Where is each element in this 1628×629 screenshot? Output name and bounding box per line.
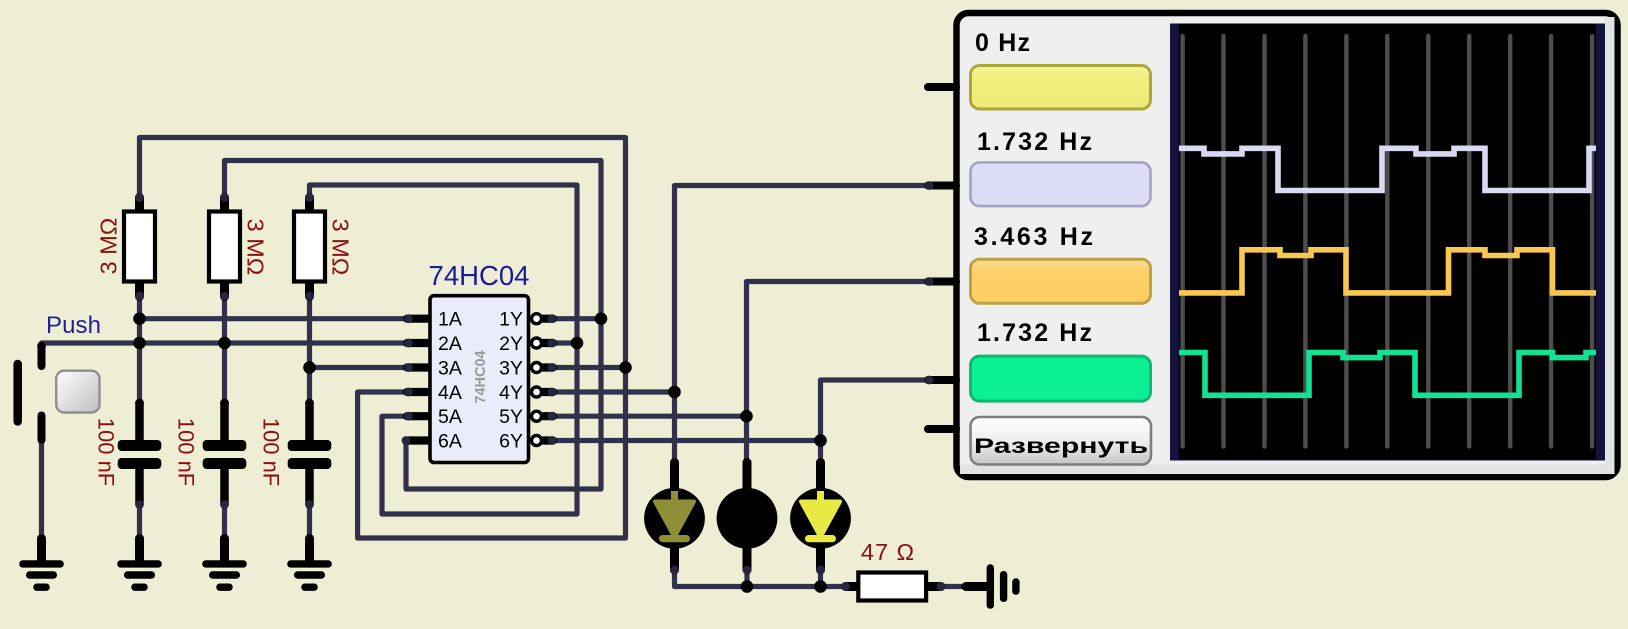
LED D2 — [717, 458, 778, 574]
wire C2 to ground — [222, 504, 227, 539]
svg-text:4A: 4A — [438, 382, 462, 404]
svg-text:0 Hz: 0 Hz — [975, 29, 1030, 57]
svg-text:1Y: 1Y — [499, 309, 523, 331]
junction R1/2A — [133, 337, 146, 350]
wire row 2Y — [551, 340, 577, 345]
oscilloscope panel — [957, 13, 1618, 477]
wire column R3-C3 — [307, 296, 312, 403]
wire column R1-C1 — [137, 296, 142, 403]
svg-text:6Y: 6Y — [499, 431, 523, 453]
svg-text:3.463 Hz: 3.463 Hz — [974, 223, 1093, 251]
junction 6Y — [814, 434, 827, 447]
wire row 3A — [310, 365, 411, 370]
wire row 4Y — [551, 389, 675, 394]
wire C1 to ground — [137, 504, 142, 539]
waveform channel 3 orange 3.463 Hz — [1179, 250, 1596, 293]
junction bus D2 — [741, 580, 754, 593]
display gridlines — [1183, 36, 1593, 447]
svg-text:3 MΩ: 3 MΩ — [243, 219, 269, 276]
svg-text:3 MΩ: 3 MΩ — [328, 219, 354, 276]
junction 1Y — [595, 312, 608, 325]
scope input stub 1 — [928, 83, 956, 91]
svg-text:3 MΩ: 3 MΩ — [96, 218, 122, 275]
svg-text:5Y: 5Y — [499, 406, 523, 428]
svg-text:Развернуть: Развернуть — [974, 435, 1148, 458]
button Razvernut — [971, 417, 1152, 465]
wire row 1A — [140, 316, 411, 321]
C3 ground — [287, 534, 332, 591]
wire 47ohm to ground — [941, 584, 966, 589]
resistor R2 3 Mohm — [209, 193, 269, 300]
svg-text:47 Ω: 47 Ω — [861, 539, 915, 565]
wire net 2Y feedback loop (R3 top, V3, 5A loop) — [310, 185, 578, 514]
wire row 6Y — [551, 438, 821, 443]
wire row 3Y — [551, 365, 626, 370]
junction bus D3 — [814, 580, 827, 593]
channel 3 color box orange — [971, 259, 1151, 303]
junction 2Y — [571, 337, 584, 350]
svg-text:3Y: 3Y — [499, 358, 523, 380]
wire C3 to ground — [307, 504, 312, 539]
svg-text:1A: 1A — [438, 309, 462, 331]
wire row 5Y — [551, 414, 747, 419]
scope input stub 5 — [928, 425, 956, 433]
wire row 2A from push button — [42, 343, 411, 348]
capacitor C1 100 nF — [94, 399, 162, 509]
wire 5Y to scope channel 3 — [747, 282, 930, 463]
LED D1 — [644, 458, 705, 574]
svg-text:6A: 6A — [438, 431, 462, 453]
scope display — [1170, 24, 1605, 461]
op-amp U1 74HC04 inverter chip — [402, 296, 557, 463]
push button ground — [19, 534, 64, 591]
wire row 1Y — [551, 316, 601, 321]
wire column R2-C2 — [222, 296, 227, 403]
wire 6Y to scope channel 4 — [821, 380, 930, 463]
junction 3Y — [619, 361, 632, 374]
channel 4 color box green — [971, 356, 1151, 401]
resistor R3 3 Mohm — [294, 193, 354, 300]
channel 2 color box lavender — [971, 162, 1151, 206]
svg-text:1.732 Hz: 1.732 Hz — [977, 319, 1092, 347]
svg-text:4Y: 4Y — [499, 382, 523, 404]
svg-text:1.732 Hz: 1.732 Hz — [977, 128, 1092, 156]
svg-text:100 nF: 100 nF — [94, 418, 119, 487]
ground right of R4 — [962, 564, 1020, 609]
capacitor C3 100 nF — [259, 399, 332, 509]
svg-text:2Y: 2Y — [499, 333, 523, 355]
wire LED cathode bus — [675, 570, 847, 587]
svg-text:Push: Push — [46, 312, 101, 339]
wire push button to ground — [39, 440, 44, 539]
junction R1/1A — [133, 312, 146, 325]
scope input stub 4 — [925, 376, 956, 385]
capacitor C2 100 nF — [174, 399, 247, 509]
svg-text:74HC04: 74HC04 — [429, 260, 530, 291]
wire net 3Y feedback loop (R1 top, V1, 4A loop) — [140, 138, 626, 539]
junction R2/2A — [218, 337, 231, 350]
C1 ground — [117, 534, 162, 591]
junction 5Y — [740, 410, 753, 423]
svg-text:100 nF: 100 nF — [259, 418, 284, 487]
channel 1 color box yellow — [971, 66, 1151, 110]
resistor R1 3 Mohm — [96, 193, 156, 300]
LED D3 — [790, 458, 851, 574]
push button SW1 — [18, 342, 100, 440]
svg-text:3A: 3A — [438, 358, 462, 380]
svg-text:5A: 5A — [438, 406, 462, 428]
resistor R4 47 ohm — [841, 573, 945, 601]
junction 4Y — [668, 386, 681, 399]
svg-text:2A: 2A — [438, 333, 462, 355]
svg-text:100 nF: 100 nF — [174, 418, 199, 487]
waveform channel 2 lavender 1.732 Hz — [1179, 148, 1596, 190]
wire 4Y to scope channel 2 — [675, 186, 930, 463]
svg-text:74HC04: 74HC04 — [473, 350, 489, 403]
scope input stub 3 — [925, 277, 956, 286]
C2 ground — [202, 534, 247, 591]
junction R3/3A — [303, 361, 316, 374]
wire net 1Y feedback loop (R2 top, V2, 6A loop) — [225, 161, 602, 490]
waveform channel 4 green 1.732 Hz — [1179, 353, 1596, 396]
scope input stub 2 — [925, 181, 956, 190]
